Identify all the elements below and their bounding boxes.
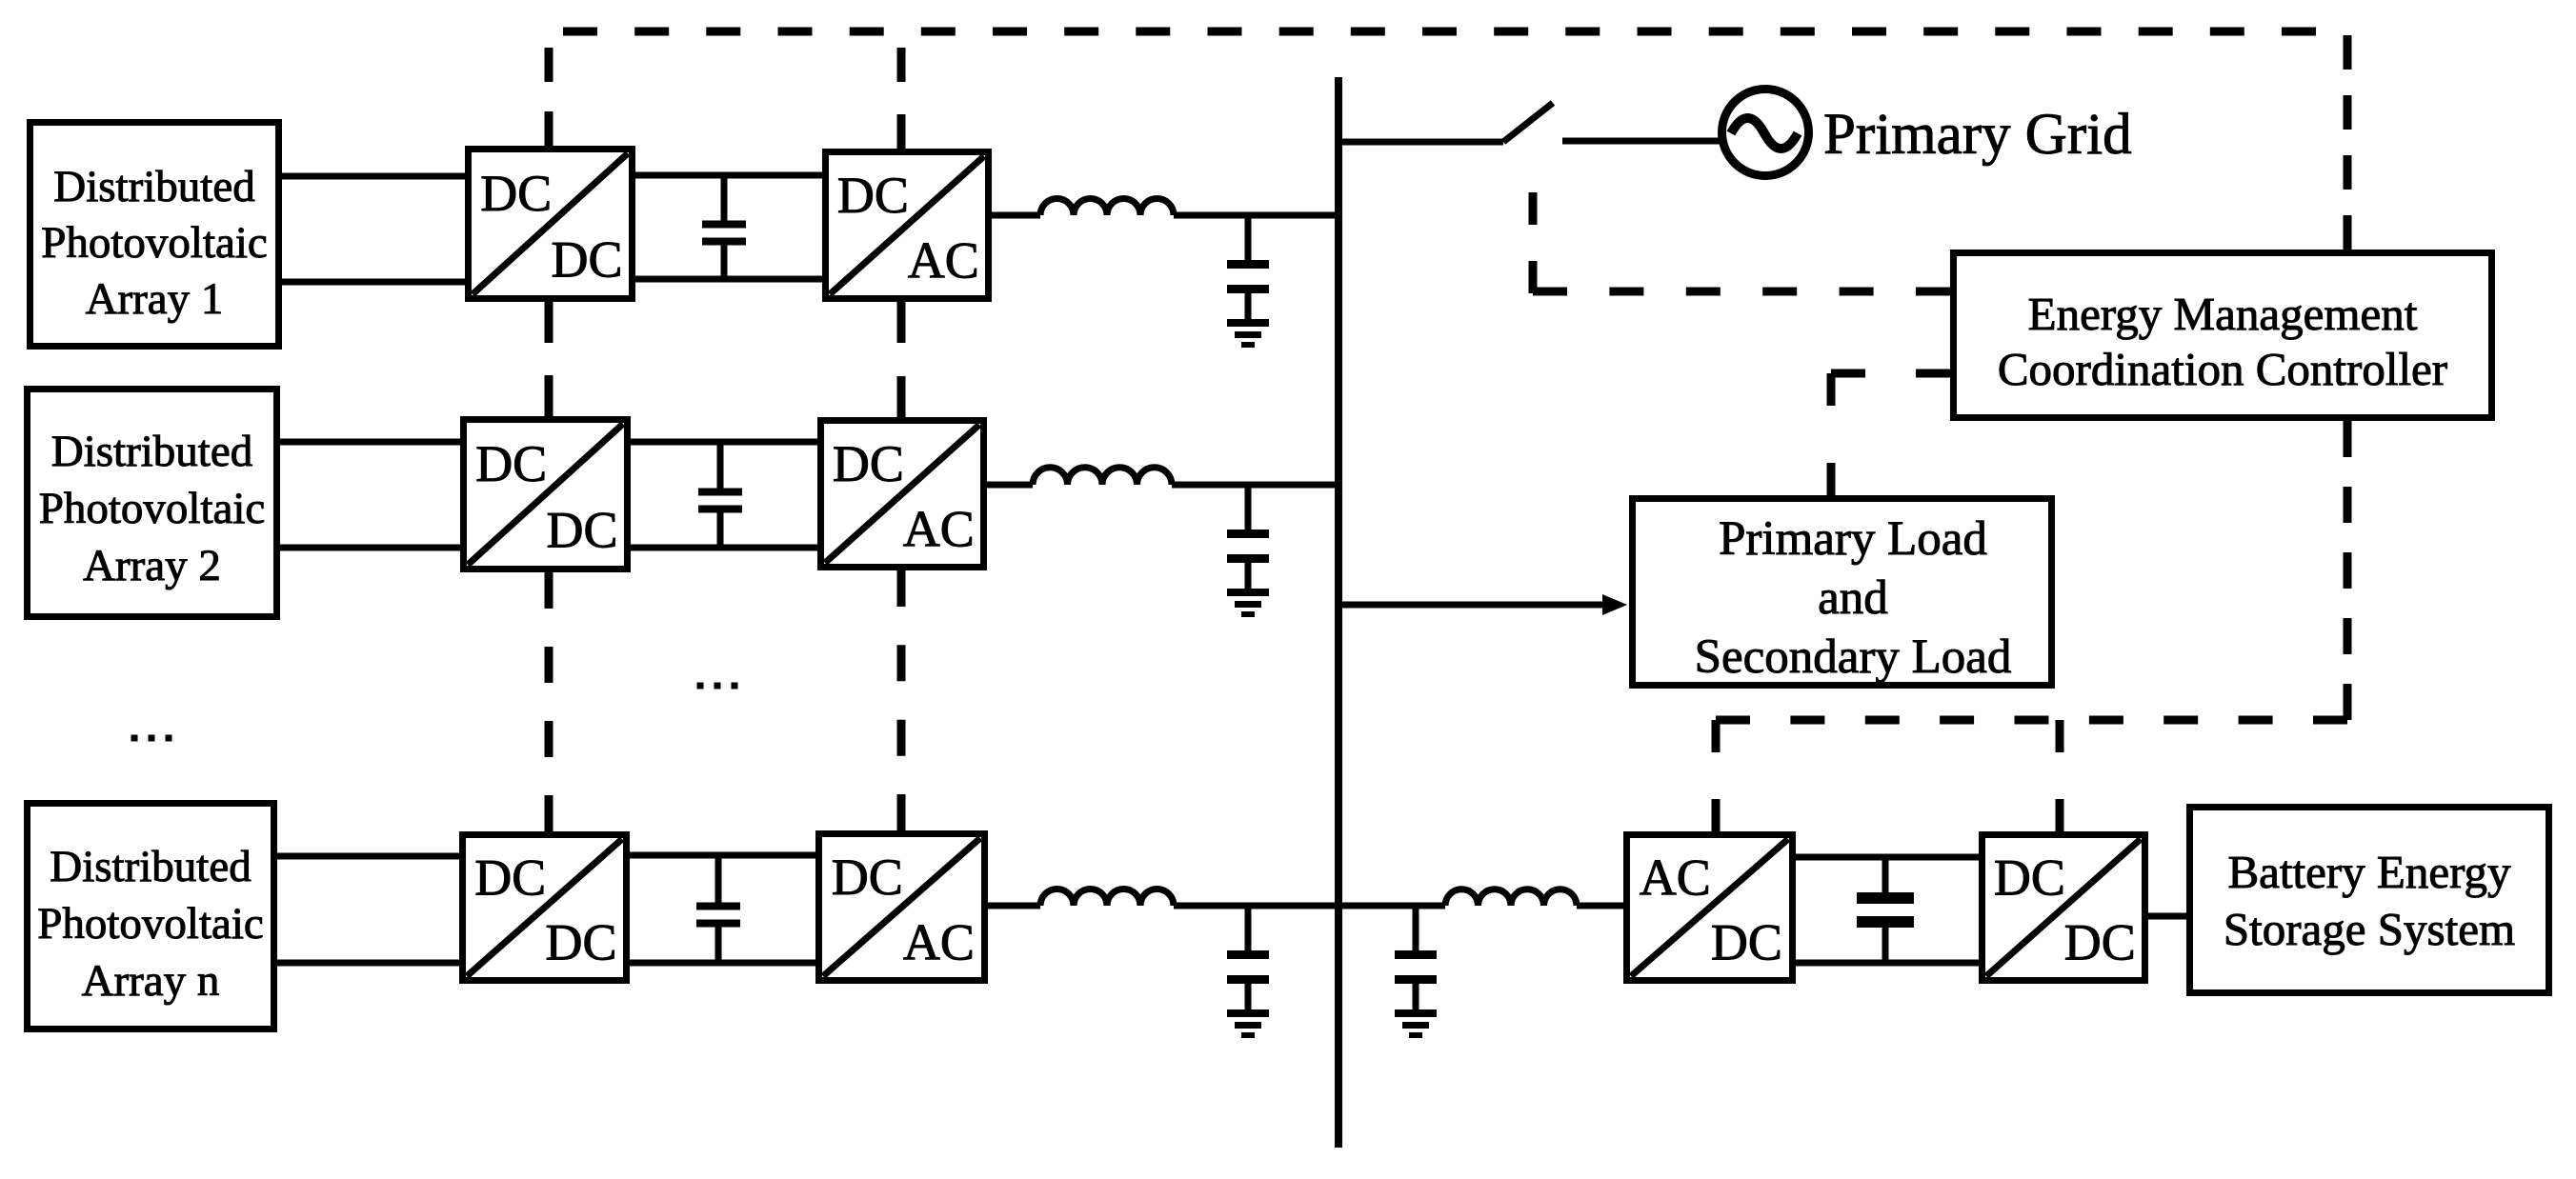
svg-text:DC: DC [832,849,903,906]
svg-text:Storage System: Storage System [2224,903,2515,955]
svg-text:Array 2: Array 2 [83,541,221,590]
svg-text:Distributed: Distributed [50,842,251,891]
svg-text:and: and [1818,571,1888,625]
svg-text:DC: DC [480,165,552,222]
svg-text:DC: DC [837,167,909,224]
svg-text:AC: AC [908,231,979,289]
svg-text:Primary Load: Primary Load [1719,512,1987,566]
svg-text:DC: DC [551,231,622,289]
svg-text:DC: DC [475,435,547,492]
svg-text:Photovoltaic: Photovoltaic [37,899,264,949]
svg-text:AC: AC [1640,849,1711,907]
svg-text:DC: DC [1994,849,2065,907]
svg-text:DC: DC [833,435,904,492]
svg-text:Distributed: Distributed [51,427,252,476]
svg-text:Array n: Array n [82,956,220,1006]
svg-text:DC: DC [545,914,616,971]
svg-text:Primary Grid: Primary Grid [1823,103,2132,167]
svg-text:Array 1: Array 1 [86,274,224,324]
svg-text:DC: DC [546,502,617,559]
svg-text:AC: AC [903,913,975,970]
svg-text:Secondary Load: Secondary Load [1695,630,2012,684]
svg-text:Coordination Controller: Coordination Controller [1998,343,2447,395]
svg-text:Energy Management: Energy Management [2028,288,2418,340]
svg-text:DC: DC [2064,914,2136,971]
svg-text:Photovoltaic: Photovoltaic [41,218,268,268]
svg-text:DC: DC [1711,914,1782,971]
svg-text:DC: DC [474,849,546,907]
svg-text:Battery Energy: Battery Energy [2227,846,2511,898]
svg-text:Photovoltaic: Photovoltaic [39,484,266,533]
svg-text:Distributed: Distributed [53,162,254,211]
svg-text:AC: AC [903,500,975,557]
